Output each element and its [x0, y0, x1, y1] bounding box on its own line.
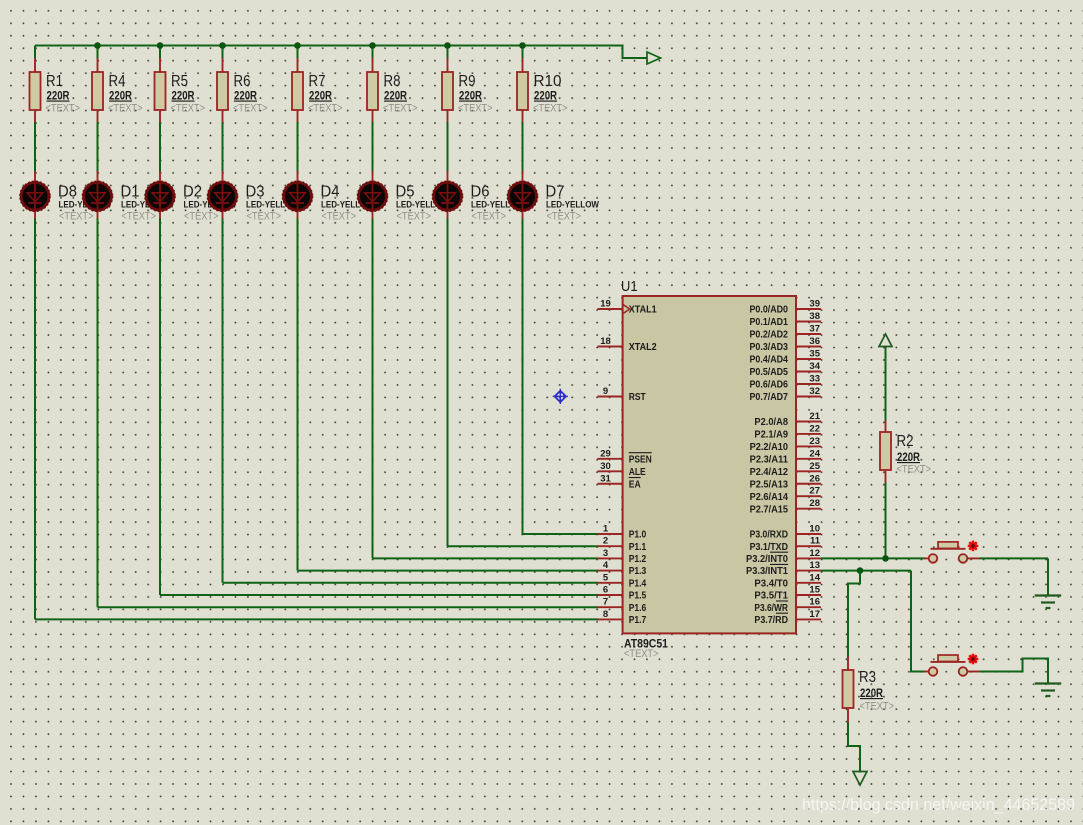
svg-text:P0.4/AD4: P0.4/AD4 [750, 355, 789, 366]
svg-text:D8: D8 [58, 183, 77, 200]
svg-text:3: 3 [603, 548, 608, 559]
svg-text:P0.3/AD3: P0.3/AD3 [750, 342, 789, 353]
svg-text:XTAL1: XTAL1 [629, 305, 657, 316]
svg-text:33: 33 [809, 374, 820, 385]
svg-text:220R: 220R [172, 91, 196, 103]
svg-text:<TEXT>: <TEXT> [247, 210, 282, 222]
svg-text:28: 28 [809, 498, 820, 509]
svg-text:15: 15 [809, 585, 820, 596]
svg-text:23: 23 [809, 436, 820, 447]
svg-text:<TEXT>: <TEXT> [458, 103, 493, 115]
svg-text:220R: 220R [234, 91, 258, 103]
svg-text:D2: D2 [183, 183, 202, 200]
svg-text:R10: R10 [534, 73, 562, 90]
svg-text:P0.5/AD5: P0.5/AD5 [750, 367, 789, 378]
svg-text:P3.7/RD: P3.7/RD [754, 615, 788, 626]
svg-text:39: 39 [809, 299, 820, 310]
svg-text:13: 13 [809, 560, 820, 571]
svg-text:17: 17 [809, 609, 820, 620]
svg-text:8: 8 [603, 609, 608, 620]
svg-text:220R: 220R [860, 688, 884, 700]
svg-text:P0.0/AD0: P0.0/AD0 [750, 305, 789, 316]
svg-text:24: 24 [809, 448, 820, 459]
svg-text:P2.0/A8: P2.0/A8 [754, 417, 788, 428]
svg-text:<TEXT>: <TEXT> [184, 210, 219, 222]
svg-text:P1.6: P1.6 [629, 603, 647, 614]
svg-text:12: 12 [809, 548, 820, 559]
svg-text:<TEXT>: <TEXT> [624, 648, 659, 660]
svg-text:P1.2: P1.2 [629, 554, 647, 565]
svg-text:32: 32 [809, 386, 820, 397]
svg-text:R6: R6 [234, 73, 251, 90]
svg-text:EA: EA [629, 479, 641, 490]
svg-text:XTAL2: XTAL2 [629, 342, 657, 353]
svg-text:<TEXT>: <TEXT> [860, 701, 895, 713]
svg-text:1: 1 [603, 524, 609, 535]
svg-text:4: 4 [603, 560, 609, 571]
svg-text:21: 21 [809, 411, 820, 422]
svg-text:220R: 220R [309, 91, 333, 103]
svg-text:P3.3/INT1: P3.3/INT1 [746, 566, 788, 577]
svg-text:<TEXT>: <TEXT> [547, 210, 582, 222]
svg-text:22: 22 [809, 423, 820, 434]
svg-text:18: 18 [600, 336, 611, 347]
svg-text:38: 38 [809, 311, 820, 322]
svg-text:ALE: ALE [629, 467, 646, 478]
svg-text:P1.3: P1.3 [629, 566, 647, 577]
svg-text:25: 25 [809, 461, 820, 472]
svg-text:220R: 220R [897, 452, 921, 464]
svg-text:R1: R1 [46, 73, 63, 90]
svg-text:R4: R4 [109, 73, 126, 90]
svg-text:P1.7: P1.7 [629, 615, 647, 626]
svg-text:10: 10 [809, 524, 820, 535]
svg-text:P3.5/T1: P3.5/T1 [754, 591, 788, 602]
svg-text:16: 16 [809, 597, 820, 608]
svg-text:LED-YELLOW: LED-YELLOW [546, 200, 599, 210]
svg-text:11: 11 [810, 536, 821, 547]
svg-text:R8: R8 [384, 73, 401, 90]
svg-text:P1.5: P1.5 [629, 591, 647, 602]
svg-text:36: 36 [809, 336, 820, 347]
svg-text:220R: 220R [47, 91, 71, 103]
svg-text:<TEXT>: <TEXT> [233, 103, 268, 115]
svg-text:27: 27 [809, 486, 820, 497]
svg-text:9: 9 [603, 386, 608, 397]
svg-text:P0.2/AD2: P0.2/AD2 [750, 330, 789, 341]
svg-text:D3: D3 [246, 183, 265, 200]
svg-text:P2.7/A15: P2.7/A15 [750, 504, 789, 515]
svg-text:PSEN: PSEN [629, 454, 652, 465]
svg-text:26: 26 [809, 473, 820, 484]
svg-text:P3.4/T0: P3.4/T0 [754, 578, 788, 589]
svg-text:<TEXT>: <TEXT> [108, 103, 143, 115]
svg-text:220R: 220R [459, 91, 483, 103]
svg-text:P1.0: P1.0 [629, 530, 647, 541]
svg-text:D5: D5 [396, 183, 415, 200]
svg-text:U1: U1 [621, 279, 638, 295]
svg-text:<TEXT>: <TEXT> [308, 103, 343, 115]
svg-text:6: 6 [603, 585, 608, 596]
svg-text:31: 31 [600, 473, 611, 484]
svg-text:30: 30 [600, 461, 611, 472]
svg-text:P3.0/RXD: P3.0/RXD [750, 530, 788, 541]
svg-text:P3.2/INT0: P3.2/INT0 [746, 554, 788, 565]
svg-text:<TEXT>: <TEXT> [383, 103, 418, 115]
svg-text:34: 34 [809, 361, 820, 372]
svg-text:220R: 220R [384, 91, 408, 103]
svg-text:P2.3/A11: P2.3/A11 [750, 454, 789, 465]
svg-text:<TEXT>: <TEXT> [122, 210, 157, 222]
svg-text:P2.2/A10: P2.2/A10 [750, 442, 789, 453]
svg-text:P1.1: P1.1 [629, 542, 647, 553]
svg-text:P2.5/A13: P2.5/A13 [750, 479, 789, 490]
svg-text:D6: D6 [471, 183, 490, 200]
svg-text:<TEXT>: <TEXT> [472, 210, 507, 222]
svg-text:R5: R5 [171, 73, 188, 90]
svg-text:D1: D1 [121, 183, 140, 200]
svg-text:<TEXT>: <TEXT> [46, 103, 81, 115]
svg-text:P1.4: P1.4 [629, 578, 647, 589]
svg-text:R2: R2 [897, 433, 914, 450]
svg-text:5: 5 [603, 572, 609, 583]
svg-text:2: 2 [603, 536, 608, 547]
svg-text:<TEXT>: <TEXT> [171, 103, 206, 115]
svg-text:7: 7 [603, 597, 608, 608]
svg-text:R3: R3 [859, 669, 876, 686]
svg-text:P0.7/AD7: P0.7/AD7 [750, 392, 789, 403]
svg-text:14: 14 [809, 572, 820, 583]
svg-text:29: 29 [600, 448, 611, 459]
svg-text:<TEXT>: <TEXT> [59, 210, 94, 222]
svg-text:P2.6/A14: P2.6/A14 [750, 492, 789, 503]
svg-text:P3.1/TXD: P3.1/TXD [750, 542, 788, 553]
svg-text:220R: 220R [534, 91, 558, 103]
svg-text:P2.1/A9: P2.1/A9 [754, 430, 788, 441]
svg-text:P0.1/AD1: P0.1/AD1 [750, 317, 789, 328]
svg-text:<TEXT>: <TEXT> [397, 210, 432, 222]
svg-text:P3.6/WR: P3.6/WR [754, 603, 788, 614]
svg-text:R7: R7 [309, 73, 326, 90]
svg-text:35: 35 [809, 349, 820, 360]
svg-text:D4: D4 [321, 183, 340, 200]
svg-text:<TEXT>: <TEXT> [533, 103, 568, 115]
svg-text:<TEXT>: <TEXT> [897, 464, 932, 476]
svg-text:P2.4/A12: P2.4/A12 [750, 467, 789, 478]
svg-text:P0.6/AD6: P0.6/AD6 [750, 380, 789, 391]
svg-text:220R: 220R [109, 91, 133, 103]
svg-text:R9: R9 [459, 73, 476, 90]
svg-text:https://blog.csdn.net/weixin_4: https://blog.csdn.net/weixin_44652589 [802, 796, 1075, 814]
svg-text:<TEXT>: <TEXT> [322, 210, 357, 222]
svg-text:19: 19 [600, 299, 611, 310]
svg-text:RST: RST [629, 392, 646, 403]
svg-text:37: 37 [809, 324, 820, 335]
svg-text:D7: D7 [546, 183, 565, 200]
